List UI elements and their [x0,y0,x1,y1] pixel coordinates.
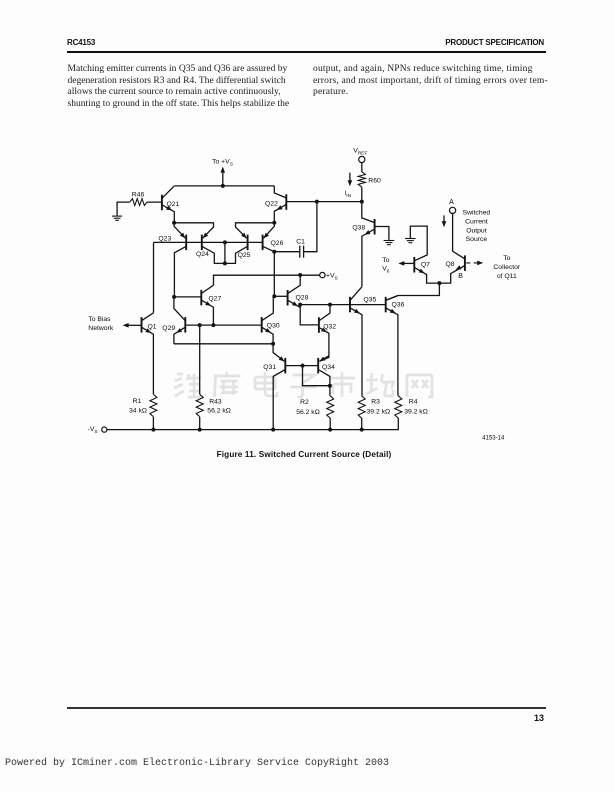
wire: Q26 collector vertical to Q28 base node [273,252,275,297]
wire: Q22 base to Iin node [286,201,362,203]
transistor Q23 [185,235,187,251]
svg-text:R1: R1 [133,398,142,405]
svg-text:Q26: Q26 [271,240,284,247]
svg-text:56.2 kΩ: 56.2 kΩ [207,408,231,415]
dashed wire: Q8 base To Collector of Q11 [466,262,478,264]
node: Q26 collector / C1 [272,250,276,254]
svg-text:Q28: Q28 [296,295,309,302]
ground (R46) [112,215,122,217]
wire: R43 drop [199,325,201,394]
resistor R43 56.2k [196,394,203,416]
transistor Q26 [262,235,264,251]
node: Q7/Q8 emitter junction [437,281,441,285]
svg-text:R3: R3 [371,398,380,405]
svg-text:Output: Output [466,227,487,234]
node: Iin junction [360,200,364,204]
node: Q21 emitter junction [172,221,176,225]
svg-text:Q29: Q29 [162,325,175,332]
node: Q27 base junction [172,295,176,299]
node: Q31/Q34 base tie [301,364,305,368]
svg-text:Q25: Q25 [238,252,251,259]
wire: Q34 collector tie to base rail [303,366,330,386]
wire: Vref to R60 [361,163,363,172]
svg-text:R43: R43 [209,398,222,405]
svg-text:Network: Network [88,325,114,332]
wire: ground to R46 to Q21 base [117,202,162,216]
svg-text:R2: R2 [300,399,309,406]
svg-text:39.2 kΩ: 39.2 kΩ [404,408,428,415]
watermark footer text [5,758,389,769]
wire: diode tie Q24/Q25 to rail [224,242,226,263]
node: Q28 emitter junction [298,303,302,307]
svg-text:Q8: Q8 [446,261,455,268]
svg-text:Q38: Q38 [352,225,365,232]
svg-text:Q27: Q27 [208,295,221,302]
wire: -Vs rail [107,418,398,430]
svg-text:Q35: Q35 [363,297,376,304]
wire: R60 to Iin node [361,187,363,201]
wire: Q27 collector to +Vs terminal [214,275,320,285]
resistor R1 34k [150,394,157,416]
wire: top rail [174,185,274,187]
node: Q27 emitter tap [211,323,215,327]
svg-text:Q23: Q23 [158,236,171,243]
svg-text:V6: V6 [382,266,390,275]
footer rule [67,707,546,708]
wire: Q34 collector to R2 [329,386,331,396]
svg-text:Q36: Q36 [392,301,405,308]
transistor Q32 [318,317,320,333]
svg-text:To: To [382,257,389,264]
wire: emitter junction down to Q36 collector [386,283,440,300]
svg-text:B: B [458,273,463,280]
svg-text:A: A [449,199,454,206]
Iin current arrow [349,173,351,182]
node: C1 top junction [315,200,319,204]
wire: Q28 emitter down to Q32 base [300,305,319,325]
svg-text:Current: Current [465,218,488,225]
transistor Q36 [385,297,387,313]
wire: Q38 base to ground [375,227,389,240]
wire: Q29/Q30 emitter tie [174,343,273,345]
page number [526,713,544,723]
svg-text:Q30: Q30 [267,322,280,329]
svg-text:4153-14: 4153-14 [482,435,505,441]
header: doc type [445,38,544,47]
wire: Q1 base To Bias Network [127,324,141,326]
svg-text:R4: R4 [409,398,418,405]
transistor Q21 [161,195,163,211]
svg-text:Q24: Q24 [196,251,209,258]
svg-text:Q7: Q7 [421,262,430,269]
transistor Q29 [184,317,186,333]
svg-text:-VS: -VS [88,426,98,435]
node: +Vs terminal [320,272,325,277]
wire: Iin node to Q38 collector [362,202,375,223]
transistor Q25 [247,235,249,251]
transistor Q7 [413,257,415,273]
svg-text:R46: R46 [132,192,145,199]
svg-text:Q31: Q31 [263,364,276,371]
capacitor C1 [274,202,317,252]
svg-text:To Bias: To Bias [88,316,111,323]
transistor Q30 [261,317,263,333]
svg-text:56.2 kΩ: 56.2 kΩ [296,409,320,416]
transistor Q35 [349,297,351,313]
node: Q32 collector junction [328,303,332,307]
node: R43 tap [198,323,202,327]
figure caption [0,450,611,459]
header: part number [67,38,95,47]
resistor R3 39.2k [358,396,365,418]
svg-text:Q32: Q32 [323,323,336,330]
watermark (approx CJK glyphs) [174,372,432,397]
transistor Q28 [287,290,289,306]
ground (Q7 collector) [405,238,416,240]
transistor Q38 [374,219,376,235]
wire: bases rail Q23-Q26 [154,241,263,243]
node: emitter tie junction [271,342,275,346]
transistor Q24 [201,235,203,251]
wire: rail to Q1 collector [153,242,155,312]
svg-text:34 kΩ: 34 kΩ [129,408,147,415]
svg-text:+VS: +VS [326,273,338,282]
wire: Q7 collector to ground bracket [410,226,427,261]
wire: Q28 emitter / Q32 collector / Q35-Q36 base line [300,304,386,306]
svg-text:Collector: Collector [493,264,521,271]
svg-text:Q22: Q22 [265,200,278,207]
svg-text:IIN: IIN [345,190,352,199]
resistor R60 [358,172,365,187]
transistor Q22 [285,194,287,210]
transistor Q27 [200,290,202,306]
wire: Q31/Q34 base rail [285,365,318,367]
resistor R2 56.2k [327,396,334,418]
wire: Q29/Q30 base rail [185,324,261,326]
body text left column [68,63,308,109]
svg-text:VREF: VREF [353,148,367,157]
svg-text:Q34: Q34 [322,364,335,371]
svg-text:of Q11: of Q11 [497,273,517,280]
wire: A to Q8 collector [453,214,465,259]
wire: To +Vs supply arrow [222,172,224,186]
resistor R4 39.2k [395,396,402,418]
transistor Q1 [141,317,143,333]
transistor Q34 [317,358,319,374]
switched output current arrow [443,215,445,222]
transistor Q8 [464,255,466,271]
svg-text:39.2 kΩ: 39.2 kΩ [367,408,391,415]
resistor R46 [130,199,147,206]
node: Q22 emitter junction [272,221,276,225]
svg-text:C1: C1 [296,238,305,245]
body text right column [313,63,573,98]
node: Q34 collector junction [328,384,332,388]
ground (Q38 base) [384,240,395,242]
transistor Q31 [284,358,286,374]
junction on top rail [221,184,225,188]
wire: Q7 base to V6 arrow [403,262,414,264]
svg-text:To: To [503,255,510,262]
svg-text:To +VS: To +VS [212,159,233,168]
svg-text:Q21: Q21 [167,201,180,208]
header rule [67,51,546,52]
svg-text:R60: R60 [368,177,381,184]
svg-text:Q1: Q1 [148,323,157,330]
svg-text:Switched: Switched [463,209,491,216]
svg-text:Source: Source [466,236,488,243]
